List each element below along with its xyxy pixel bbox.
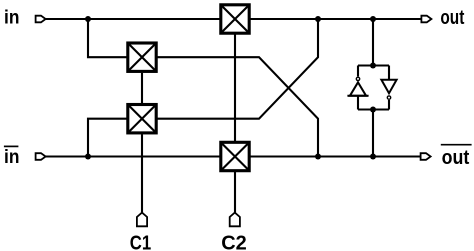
svg-text:C2: C2	[221, 232, 247, 251]
svg-text:C1: C1	[130, 231, 151, 251]
svg-text:in: in	[4, 145, 19, 167]
svg-text:in: in	[4, 6, 19, 28]
svg-text:out: out	[442, 147, 470, 169]
svg-text:out: out	[440, 6, 464, 28]
